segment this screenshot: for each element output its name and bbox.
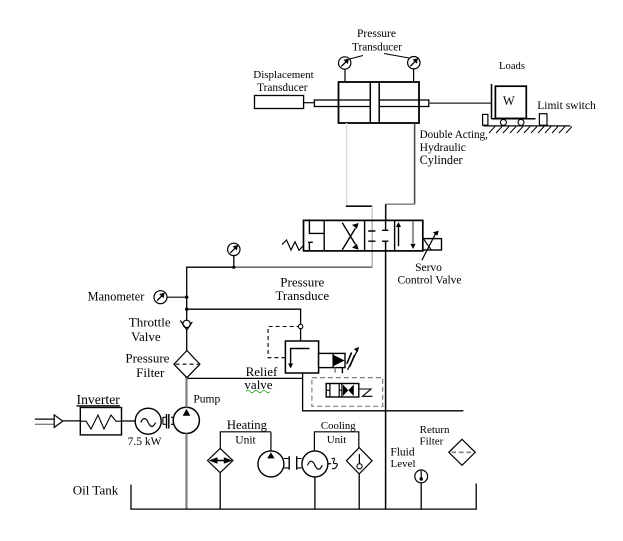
gauge stub xyxy=(233,256,235,268)
wire: rod to load (gray) xyxy=(429,102,492,104)
left stop block xyxy=(483,114,488,125)
label: Pressure Transduce xyxy=(275,275,329,304)
wire: inverter to motor xyxy=(122,420,136,422)
squiggle xyxy=(328,463,331,465)
input arrows xyxy=(35,418,54,420)
svg-text:Pressure: Pressure xyxy=(125,350,169,365)
oil tank outline xyxy=(131,484,476,510)
spellcheck squiggle under valve xyxy=(246,390,270,392)
cooling bracket xyxy=(314,432,358,451)
displacement transducer box xyxy=(255,96,304,109)
relief valve solenoid xyxy=(319,353,345,367)
wire: throttle to filter xyxy=(186,330,188,351)
svg-text:valve: valve xyxy=(244,377,272,392)
load W box xyxy=(495,86,526,118)
heater double arrow xyxy=(212,460,229,462)
pressure transducer gauge PT2 xyxy=(408,57,420,83)
fluid level gauge xyxy=(415,470,428,483)
wire: A stub to valve top (light) xyxy=(371,206,373,220)
svg-text:Unit: Unit xyxy=(327,434,347,446)
label: Pressure Filter xyxy=(125,350,169,380)
inverter box xyxy=(80,408,121,435)
wire: manometer to main line xyxy=(167,296,187,298)
label: Servo Control Valve xyxy=(398,262,462,287)
relief valve body RV1 xyxy=(285,341,318,373)
valve spring (left) xyxy=(282,240,304,250)
wire: T return line (valve to tank) xyxy=(385,241,387,508)
svg-text:Level: Level xyxy=(390,458,415,470)
wire: cooling motor to tank xyxy=(314,477,316,509)
leader line to left gauge xyxy=(350,56,364,60)
cooling motor xyxy=(302,451,328,477)
servo solenoid X stroke xyxy=(424,239,432,250)
motor M1 xyxy=(135,408,161,434)
svg-text:Throttle: Throttle xyxy=(129,314,171,329)
junction dot xyxy=(185,296,188,299)
wire: to relief valve pilot column xyxy=(187,309,301,341)
svg-text:Manometer: Manometer xyxy=(88,290,145,304)
svg-text:Transducer: Transducer xyxy=(257,82,308,94)
pump P1 xyxy=(173,407,199,433)
cooler diamond xyxy=(346,448,372,474)
valve cell1 internal (h-path) xyxy=(308,219,324,251)
svg-text:Filter: Filter xyxy=(136,365,165,380)
label: Double Acting, Hydraulic Cylinder xyxy=(420,129,489,167)
svg-text:Valve: Valve xyxy=(131,329,161,344)
wire: pump to tank (gray) xyxy=(185,434,187,510)
svg-text:Heating: Heating xyxy=(227,418,268,432)
heating bracket xyxy=(220,432,271,449)
svg-text:Displacement: Displacement xyxy=(253,69,313,81)
servo solenoid box xyxy=(423,239,442,250)
cart wheel left xyxy=(500,119,506,125)
svg-text:Cooling: Cooling xyxy=(321,420,356,432)
label: Throttle Valve xyxy=(129,314,171,344)
pressure filter diamond xyxy=(174,351,200,378)
label: Heating Unit xyxy=(227,418,268,447)
manometer gauge xyxy=(154,291,167,304)
label: Return Filter xyxy=(419,424,450,448)
svg-text:Pressure: Pressure xyxy=(357,28,396,40)
svg-text:Unit: Unit xyxy=(235,435,256,447)
junction dot xyxy=(232,266,235,269)
wire: heater to tank xyxy=(219,473,221,509)
wire: cylinder left port down (very light) xyxy=(346,123,348,206)
svg-text:Loads: Loads xyxy=(499,61,525,72)
label: Fluid Level xyxy=(390,447,415,470)
small valve spring xyxy=(359,389,373,396)
wire: relief valve drain xyxy=(303,373,464,411)
return filter diamond xyxy=(449,439,475,465)
ground hatching xyxy=(489,127,572,134)
wire: fluid level to tank xyxy=(420,483,422,509)
wire: B stub into valve (black) xyxy=(385,204,387,220)
wire: pressure line horizontal (black part) xyxy=(187,267,234,320)
svg-text:Double Acting,: Double Acting, xyxy=(420,129,489,141)
svg-text:Pump: Pump xyxy=(193,394,220,406)
svg-text:Filter: Filter xyxy=(419,436,443,448)
svg-text:Inverter: Inverter xyxy=(77,392,121,407)
load plate xyxy=(491,84,493,119)
leader line to right gauge xyxy=(384,54,409,59)
heater diamond xyxy=(208,448,233,472)
wire: B jog horizontal (gray) xyxy=(386,203,415,205)
junction dot xyxy=(185,308,188,311)
cart platform xyxy=(492,118,536,120)
coupling motor-pump xyxy=(163,414,174,429)
adjustable spring arrow xyxy=(348,352,357,370)
wire: A jog horizontal (black) xyxy=(346,205,372,207)
wire: to inverter xyxy=(63,420,81,422)
valve cell dividers xyxy=(324,220,394,251)
pressure transducer gauge PT1 xyxy=(339,57,351,82)
svg-text:Transducer: Transducer xyxy=(352,42,402,54)
wire: cooler to tank xyxy=(358,474,360,509)
piston xyxy=(371,83,378,123)
inverter zigzag xyxy=(80,415,121,429)
solenoid legs xyxy=(334,368,336,373)
small directional valve xyxy=(326,384,359,398)
wire: pressure line horizontal (gray part) xyxy=(234,266,372,268)
label: Displacement Transducer xyxy=(253,69,313,94)
servo arrow xyxy=(422,234,436,260)
relief valve internal arrow xyxy=(291,349,310,365)
svg-text:Return: Return xyxy=(420,424,450,436)
pressure transducer gauge (on line) xyxy=(228,243,240,255)
svg-text:Servo: Servo xyxy=(415,262,442,274)
wire: A line through valve down to pressure line xyxy=(371,220,373,267)
svg-text:Cylinder: Cylinder xyxy=(420,153,463,167)
svg-text:Limit switch: Limit switch xyxy=(537,100,596,112)
heating pump xyxy=(258,451,284,477)
dashed enclosure (unloading valve) xyxy=(312,378,383,407)
label: Relief valve xyxy=(244,364,278,392)
svg-text:Fluid: Fluid xyxy=(390,447,415,459)
bowtie xyxy=(343,385,354,397)
piston rod xyxy=(314,100,428,107)
wire: cylinder right port down (dark gray) xyxy=(414,123,416,204)
valve cell4 up arrow xyxy=(398,226,400,246)
label: Pressure Transducer (top) xyxy=(352,28,402,54)
wire: transducer link xyxy=(304,102,315,104)
throttle valve symbol xyxy=(180,320,192,330)
svg-text:Transduce: Transduce xyxy=(275,288,329,303)
limit switch block xyxy=(539,114,547,126)
svg-text:Oil Tank: Oil Tank xyxy=(73,483,119,498)
junction dot xyxy=(185,376,188,379)
dashed pilot line xyxy=(268,327,298,358)
servo valve body xyxy=(304,220,423,251)
wire: pump pressure line to relief valve xyxy=(187,377,303,379)
ground line xyxy=(484,125,571,127)
svg-text:W: W xyxy=(503,94,515,108)
cart wheel right xyxy=(518,119,524,125)
valve cell2 crossed arrows xyxy=(342,223,358,250)
svg-text:7.5 kW: 7.5 kW xyxy=(128,436,162,448)
valve cell3 blocked ports xyxy=(368,231,375,241)
valve cell4 down arrow (gray shaft) xyxy=(412,221,414,243)
wire: filter to pump (gray) xyxy=(185,378,187,408)
label: Cooling Unit xyxy=(321,420,356,446)
coupling heating-cooling xyxy=(284,456,302,470)
cylinder body xyxy=(339,82,420,123)
svg-text:Control Valve: Control Valve xyxy=(398,275,462,287)
relief valve pilot node (open circle) xyxy=(298,324,302,328)
